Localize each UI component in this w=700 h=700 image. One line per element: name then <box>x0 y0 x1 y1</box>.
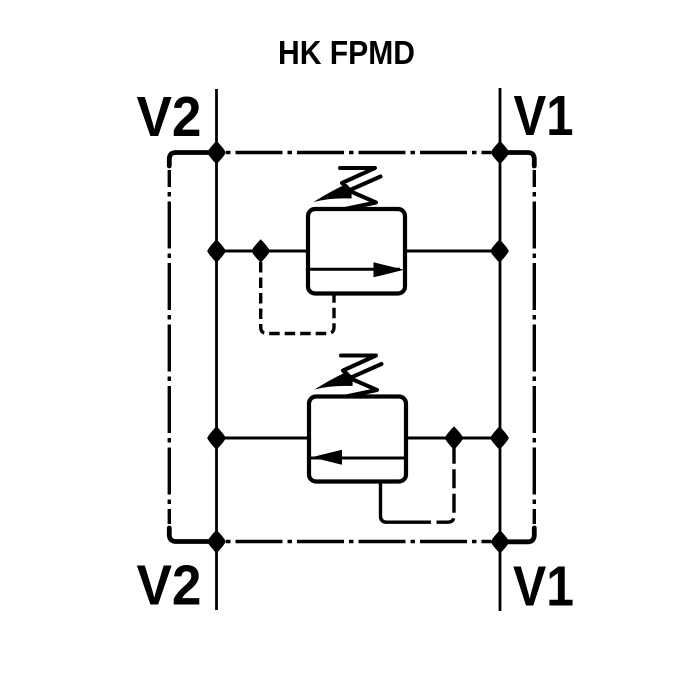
RV1 pilot line (dashed) <box>261 262 334 334</box>
node: junction top-right rail <box>491 141 510 165</box>
enclosure boundary: top dash-dot line <box>226 151 491 154</box>
enclosure boundary: top-right corner <box>500 153 534 167</box>
svg-text:V2: V2 <box>137 85 202 149</box>
RV2 spring <box>341 356 377 397</box>
RV1 adjustment arrow head <box>314 184 352 202</box>
node: junction bottom-right rail <box>491 530 510 554</box>
enclosure boundary: top-left corner <box>169 153 216 167</box>
RV2 pilot line solid segment from valve bottom <box>381 482 413 522</box>
node: junction RV2 pilot tap <box>445 426 464 450</box>
RV2 flow arrow (points left) <box>312 450 343 465</box>
wire: valve RV1 inlet (left) segment <box>217 250 309 253</box>
relief valve RV1 body <box>308 209 405 294</box>
node: junction RV2 right on V1 rail <box>490 426 509 450</box>
svg-text:V2: V2 <box>137 554 202 618</box>
wire: V2 port vertical line <box>215 89 218 610</box>
RV1 internal flow line <box>310 268 400 271</box>
wire: V1 port vertical line <box>499 88 502 611</box>
enclosure boundary: bottom dash-dot line <box>226 540 491 543</box>
RV1 spring <box>340 168 376 209</box>
RV2 internal flow line <box>311 457 404 460</box>
wire: valve RV1 outlet (right) segment <box>405 250 500 253</box>
wire: valve RV2 outlet (right) segment <box>406 437 500 440</box>
RV1 flow arrow (points right) <box>374 262 405 277</box>
wire: valve RV2 inlet (left) segment <box>217 437 310 440</box>
enclosure boundary: bottom-left corner <box>169 528 216 542</box>
enclosure boundary: right dash-dot line <box>533 170 536 524</box>
node: junction RV1 left on V2 rail <box>207 239 226 263</box>
enclosure boundary: left dash-dot line <box>168 170 171 524</box>
node: junction RV2 left on V2 rail <box>207 426 226 450</box>
svg-text:V1: V1 <box>514 84 574 148</box>
RV2 adjustment arrow shaft <box>342 364 382 382</box>
enclosure boundary: bottom-right corner <box>500 528 534 542</box>
RV1 adjustment arrow shaft <box>341 177 381 195</box>
svg-text:V1: V1 <box>513 555 574 619</box>
relief valve RV2 body <box>309 397 406 482</box>
node: junction RV1 right on V1 rail <box>490 239 509 263</box>
RV2 adjustment arrow head <box>315 372 353 390</box>
svg-text:HK FPMD: HK FPMD <box>278 34 415 71</box>
node: junction top-left rail <box>207 141 226 165</box>
node: junction RV1 pilot tap <box>251 239 270 263</box>
node: junction bottom-left rail <box>207 530 226 554</box>
RV2 pilot line dashed segment <box>412 443 454 522</box>
